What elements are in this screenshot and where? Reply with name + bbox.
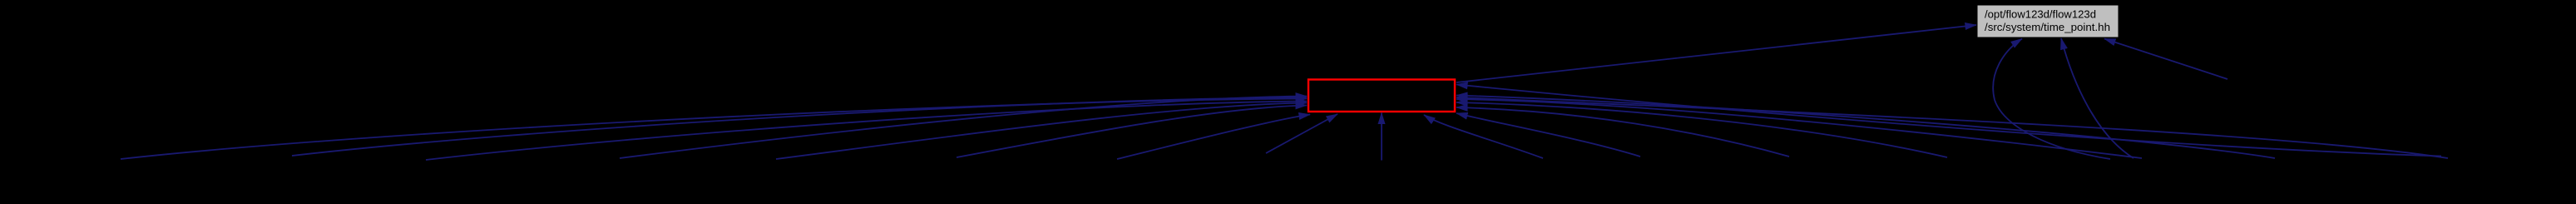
- svg-text:/opt/flow123d/flow123d: /opt/flow123d/flow123d: [1985, 7, 2096, 20]
- svg-text:/src/system/time_point.hh: /src/system/time_point.hh: [1985, 21, 2110, 33]
